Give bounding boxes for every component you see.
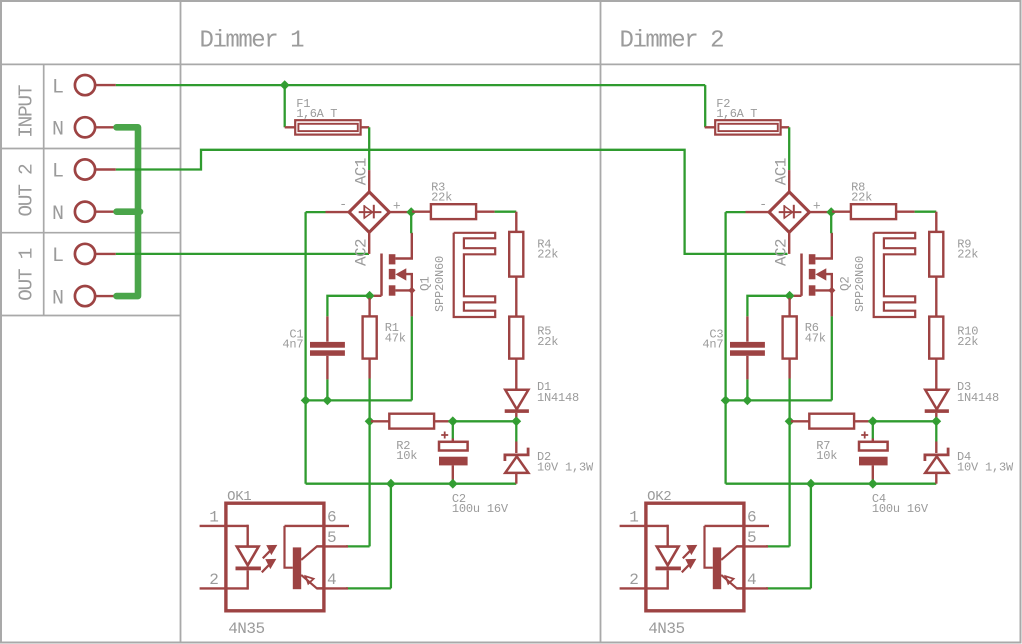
- svg-text:AC1: AC1: [772, 158, 790, 185]
- wire C3 to rail: [746, 379, 748, 400]
- pin C2 top: [452, 439, 454, 442]
- wire bridge minus to left vertical: [726, 211, 746, 213]
- pin D3 bottom: [935, 413, 937, 419]
- wire opto emitter vertical: [810, 484, 812, 589]
- wire node down to D2: [515, 421, 517, 441]
- pin bridge minus: [326, 211, 349, 213]
- bridge rectifier diamond: [769, 192, 809, 232]
- wire opto emitter horizontal: [346, 587, 391, 589]
- resistor R4 body: [509, 232, 523, 277]
- bridge inner cathode bar: [793, 205, 795, 219]
- pin R2 right: [434, 420, 448, 422]
- junction gate node: [785, 291, 795, 301]
- transistor Q2 gate bar: [800, 254, 803, 296]
- wire R3 to R4: [495, 211, 517, 213]
- resistor R2 body: [389, 414, 434, 429]
- svg-text:SPP20N60: SPP20N60: [853, 256, 867, 312]
- transistor Q1 source block: [389, 285, 396, 295]
- wire from INPUT-L down to fuse F1: [284, 85, 286, 127]
- wire down to R9: [935, 212, 937, 232]
- pin D4 top: [935, 442, 937, 454]
- capacitor C3 plate 2: [730, 350, 765, 356]
- capacitor C2 bottom plate: [439, 457, 468, 466]
- header divider line: [1, 63, 1021, 65]
- lower ground rail: [306, 483, 517, 485]
- svg-text:6: 6: [327, 509, 337, 527]
- bridge inner diode line: [359, 211, 382, 213]
- pin R7 right: [854, 420, 868, 422]
- fuse F1 inner: [298, 124, 357, 131]
- terminal X4 (OUT2 N): [75, 202, 95, 222]
- junction D3 node: [931, 416, 941, 426]
- transistor Q1 body wire: [405, 274, 412, 290]
- terminal table bottom line: [1, 315, 180, 317]
- capacitor C4 bottom plate: [859, 457, 888, 466]
- pin D1 bottom: [515, 413, 517, 419]
- junction gate-column to R7: [785, 416, 795, 426]
- junction rail C1: [323, 396, 333, 406]
- transistor Q1 body block: [389, 269, 396, 279]
- wire source of Q2 to rail: [831, 316, 833, 400]
- junction opto emitter on rail: [806, 479, 816, 489]
- terminal table row line 1: [1, 148, 180, 150]
- pin fuse F1 left: [285, 126, 296, 128]
- svg-text:OK1: OK1: [227, 489, 251, 505]
- pin D4 bottom: [935, 473, 937, 484]
- capacitor C1 plate 1: [310, 342, 345, 348]
- pin source of Q1 down: [411, 290, 413, 316]
- pin C2 bottom: [452, 465, 454, 483]
- light arrow 1 in OK2: [683, 546, 696, 558]
- wire drain of Q1 to plus node: [410, 212, 412, 233]
- pin R2 left: [371, 420, 389, 422]
- svg-text:Q1: Q1: [418, 276, 432, 291]
- svg-text:6: 6: [747, 509, 757, 527]
- wire from INPUT-L down to fuse F2: [704, 85, 706, 127]
- svg-text:22k: 22k: [537, 248, 558, 262]
- pin gate of Q2: [794, 295, 802, 297]
- svg-text:22k: 22k: [537, 335, 558, 349]
- wire fuse F2 to bridge AC1: [788, 127, 790, 170]
- phototransistor base lead in OK2: [705, 526, 713, 568]
- pin bridge plus: [389, 211, 410, 213]
- pin bridge minus: [746, 211, 769, 213]
- bridge inner triangle: [364, 206, 372, 218]
- wire node to D1 node: [453, 420, 517, 422]
- pin C1 top: [326, 316, 328, 341]
- resistor R7 body: [809, 414, 854, 429]
- wire net INPUT-L main: [116, 84, 705, 86]
- resistor R6 body: [783, 316, 797, 358]
- pin of terminal INPUT N: [95, 126, 115, 128]
- wire left vertical (minus rail): [304, 212, 306, 484]
- wire R4 to R5: [515, 277, 517, 317]
- svg-text:1N4148: 1N4148: [537, 391, 579, 405]
- wire gate node down to R6: [788, 298, 790, 316]
- svg-text:L: L: [52, 245, 64, 268]
- phototransistor emitter in OK2: [721, 575, 744, 589]
- transistor Q2 body wire: [825, 274, 832, 290]
- phototransistor emitter arrowhead in OK2: [726, 576, 734, 584]
- wire opto collector horizontal: [346, 545, 370, 547]
- svg-text:-: -: [339, 197, 347, 212]
- svg-text:Q2: Q2: [838, 276, 852, 291]
- pin fuse F1 right: [361, 126, 370, 128]
- pin of terminal OUT1 L: [95, 253, 115, 255]
- phototransistor base lead in OK1: [285, 526, 293, 568]
- junction bridge plus node: [826, 207, 836, 217]
- diode D3 cathode bar: [925, 409, 949, 413]
- wire R8 to R9: [915, 211, 937, 213]
- resistor R10 body: [929, 317, 943, 359]
- svg-text:1,6A T: 1,6A T: [716, 107, 757, 121]
- bridge inner anode bar: [363, 205, 365, 218]
- wire opto emitter horizontal: [766, 587, 811, 589]
- LED anode lead in OK2: [667, 525, 669, 547]
- wire opto emitter vertical: [390, 484, 392, 589]
- svg-text:5: 5: [327, 529, 337, 547]
- pin C3 top: [746, 316, 748, 341]
- resistor R9 body: [929, 232, 943, 277]
- svg-text:OUT 2: OUT 2: [16, 164, 38, 217]
- wire R9 to R10: [935, 277, 937, 317]
- bridge inner cathode bar: [373, 205, 375, 219]
- pin C1 bottom: [326, 356, 328, 380]
- wire R7 to C4 node: [869, 420, 873, 422]
- diode D1 cathode bar: [505, 409, 529, 413]
- transistor Q1 drain block: [389, 254, 396, 264]
- wire gate to C3: [747, 296, 789, 317]
- junction source of Q2: [828, 287, 835, 294]
- terminal X1 (INPUT L): [75, 75, 95, 95]
- terminal X5 (OUT1 L): [75, 244, 95, 264]
- heatsink tab of Q1: [454, 233, 496, 317]
- transistor Q2 source wire: [815, 289, 831, 291]
- wire opto collector horizontal: [766, 545, 790, 547]
- terminal table inner divider: [43, 64, 45, 315]
- pin of terminal OUT2 N: [95, 210, 115, 212]
- resistor R5 body: [509, 317, 523, 359]
- junction D1 node: [511, 416, 521, 426]
- LED anode lead in OK1: [246, 525, 248, 547]
- svg-text:10V 1,3W: 10V 1,3W: [957, 461, 1014, 475]
- capacitor C2 plus sign: [441, 432, 448, 439]
- bridge inner triangle: [784, 206, 792, 218]
- svg-text:1,6A T: 1,6A T: [296, 107, 337, 121]
- pin C4 top: [872, 439, 874, 442]
- svg-text:22k: 22k: [431, 191, 452, 205]
- svg-text:1N4148: 1N4148: [957, 391, 999, 405]
- junction C2 top node: [448, 416, 458, 426]
- transistor Q2 source block: [809, 285, 816, 295]
- wire R10 to D3: [935, 359, 937, 390]
- transistor Q1 body arrow: [395, 268, 406, 280]
- pin D2 top: [515, 442, 517, 454]
- transistor Q2 body block: [809, 269, 816, 279]
- svg-text:AC1: AC1: [352, 158, 370, 185]
- wire OUT2-L horizontal: [116, 150, 788, 254]
- wire gate node down to R1: [368, 298, 370, 316]
- capacitor C2 top plate: [439, 442, 468, 451]
- wire bridge minus to left vertical: [306, 211, 326, 213]
- pin R8 right: [896, 210, 915, 212]
- heatsink tab of Q2: [874, 233, 916, 317]
- phototransistor base bar in OK2: [713, 547, 721, 589]
- wire R1 bottom to opto collector: [368, 379, 370, 547]
- svg-text:2: 2: [629, 571, 639, 589]
- column divider x=600: [600, 1, 602, 643]
- pin fuse F2 right: [781, 126, 790, 128]
- junction C4 top node: [868, 416, 878, 426]
- svg-text:L: L: [52, 76, 64, 99]
- pin D2 bottom: [515, 473, 517, 484]
- fuse F2 body: [715, 120, 780, 134]
- phototransistor base bar in OK1: [293, 547, 301, 589]
- pin 6 of OK1: [285, 525, 350, 527]
- bridge inner anode bar: [783, 205, 785, 218]
- phototransistor emitter arrowhead in OK1: [306, 576, 314, 584]
- wire left vertical (minus rail): [724, 212, 726, 484]
- capacitor C4 plus sign: [861, 432, 868, 439]
- svg-text:47k: 47k: [805, 331, 826, 345]
- bridge inner diode line: [779, 211, 802, 213]
- pin of terminal OUT2 L: [95, 168, 115, 170]
- pin C3 bottom: [746, 356, 748, 380]
- junction rail left: [301, 396, 311, 406]
- wire node down to C2: [452, 421, 454, 438]
- transistor Q2 drain wire: [815, 233, 831, 259]
- pin 1 of OK1: [200, 525, 248, 527]
- transistor Q2 drain block: [809, 254, 816, 264]
- pin of terminal OUT1 N: [95, 295, 115, 297]
- svg-text:22k: 22k: [957, 248, 978, 262]
- pin 6 of OK2: [705, 525, 770, 527]
- svg-text:1: 1: [209, 509, 219, 527]
- svg-text:5: 5: [747, 529, 757, 547]
- capacitor C4 top plate: [859, 442, 888, 451]
- junction source of Q1: [408, 287, 415, 294]
- pin source of Q2 down: [831, 290, 833, 316]
- transistor Q1 drain wire: [395, 233, 411, 259]
- svg-text:4n7: 4n7: [282, 337, 303, 351]
- svg-text:AC2: AC2: [772, 239, 790, 266]
- svg-text:100u 16V: 100u 16V: [452, 502, 509, 516]
- light arrow 2 in OK1: [262, 560, 275, 572]
- pin 4 of OK2: [737, 587, 768, 589]
- LED cathode bar in OK1: [236, 567, 261, 571]
- pin 4 of OK1: [317, 587, 348, 589]
- pin 5 of OK2: [737, 545, 768, 547]
- LED cathode lead in OK2: [667, 570, 669, 589]
- wire R5 to D1: [515, 359, 517, 390]
- upper source rail: [306, 399, 412, 401]
- phototransistor emitter in OK1: [301, 575, 324, 589]
- column divider x=180: [180, 1, 182, 643]
- wire C1 to rail: [326, 379, 328, 400]
- pin AC2 of bridge: [368, 232, 370, 254]
- svg-text:4: 4: [747, 571, 757, 589]
- terminal X2 (INPUT N): [75, 117, 95, 137]
- wire fuse F1 to bridge AC1: [368, 127, 370, 170]
- wire node down to D4: [935, 421, 937, 441]
- terminal X6 (OUT1 N): [75, 286, 95, 306]
- pin R1 bottom: [368, 359, 370, 379]
- LED triangle in OK2: [657, 547, 679, 566]
- terminal table row line 2: [1, 232, 180, 234]
- fuse F1 body: [295, 120, 360, 134]
- svg-text:Dimmer 1: Dimmer 1: [200, 28, 305, 55]
- svg-text:4N35: 4N35: [648, 620, 684, 638]
- wire down to R4: [515, 212, 517, 232]
- zener D2 triangle: [505, 456, 528, 473]
- svg-text:2: 2: [209, 571, 219, 589]
- bridge rectifier diamond: [349, 192, 389, 232]
- svg-text:10V 1,3W: 10V 1,3W: [537, 461, 594, 475]
- wire R6 bottom to opto collector: [788, 379, 790, 547]
- pin of terminal INPUT L: [95, 84, 115, 86]
- svg-text:4n7: 4n7: [702, 337, 723, 351]
- lower ground rail: [726, 483, 937, 485]
- pin AC1 of bridge: [368, 170, 370, 192]
- resistor R8 body: [851, 204, 896, 219]
- svg-text:22k: 22k: [851, 191, 872, 205]
- thick N bus wire: [117, 127, 139, 296]
- transistor Q1 gate bar: [380, 254, 383, 296]
- svg-text:L: L: [52, 161, 64, 184]
- pin R3 left: [412, 210, 431, 212]
- wire node to D3 node: [873, 420, 937, 422]
- resistor R1 body: [363, 316, 377, 358]
- LED triangle in OK1: [237, 547, 259, 566]
- svg-text:4: 4: [327, 571, 337, 589]
- phototransistor collector in OK2: [721, 546, 744, 560]
- svg-text:100u 16V: 100u 16V: [872, 502, 929, 516]
- pin 1 of OK2: [620, 525, 668, 527]
- svg-text:47k: 47k: [385, 331, 406, 345]
- pin 5 of OK1: [317, 545, 348, 547]
- LED cathode lead in OK1: [246, 570, 248, 589]
- junction opto emitter on rail: [386, 479, 396, 489]
- svg-text:22k: 22k: [957, 335, 978, 349]
- svg-text:OK2: OK2: [647, 489, 671, 505]
- junction C4 bottom on rail: [868, 479, 878, 489]
- zener D4 cathode bar: [925, 448, 948, 461]
- pin 2 of OK1: [200, 587, 248, 589]
- pin R3 right: [476, 210, 495, 212]
- pin bridge plus: [809, 211, 830, 213]
- zener D4 triangle: [925, 456, 948, 473]
- svg-text:1: 1: [629, 509, 639, 527]
- pin R7 left: [791, 420, 809, 422]
- pin AC1 of bridge: [788, 170, 790, 192]
- junction bridge plus node: [406, 207, 416, 217]
- optocoupler OK2 box: [646, 503, 744, 611]
- pin 2 of OK2: [620, 587, 668, 589]
- light arrow 2 in OK2: [682, 560, 695, 572]
- svg-text:INPUT: INPUT: [16, 85, 38, 138]
- svg-text:OUT 1: OUT 1: [16, 248, 38, 301]
- junction C2 bottom on rail: [448, 479, 458, 489]
- junction gate-column to R2: [365, 416, 375, 426]
- wire OUT1-L: [116, 253, 369, 255]
- LED cathode bar in OK2: [656, 567, 681, 571]
- optocoupler OK1 box: [226, 503, 324, 611]
- transistor Q1 source wire: [395, 289, 411, 291]
- diode D1 triangle: [505, 390, 528, 410]
- upper source rail: [726, 399, 832, 401]
- junction rail C3: [743, 396, 753, 406]
- svg-text:SPP20N60: SPP20N60: [433, 256, 447, 312]
- svg-text:10k: 10k: [816, 449, 837, 463]
- transistor Q2 body arrow: [815, 268, 826, 280]
- wire gate to C1: [327, 296, 369, 317]
- svg-text:-: -: [759, 197, 767, 212]
- light arrow 1 in OK1: [263, 546, 276, 558]
- fuse F2 inner: [718, 124, 777, 131]
- wire drain of Q2 to plus node: [830, 212, 832, 233]
- thick N bus stub OUT2 N: [117, 208, 141, 215]
- pin AC2 of bridge: [788, 232, 790, 254]
- resistor R3 body: [431, 204, 476, 219]
- pin R8 left: [832, 210, 851, 212]
- svg-text:Dimmer 2: Dimmer 2: [620, 28, 724, 55]
- wire node down to C4: [872, 421, 874, 438]
- svg-text:10k: 10k: [396, 449, 417, 463]
- junction rail left: [721, 396, 731, 406]
- capacitor C1 plate 2: [310, 350, 345, 356]
- svg-text:4N35: 4N35: [228, 620, 264, 638]
- svg-text:N: N: [52, 203, 64, 226]
- pin gate of Q1: [374, 295, 382, 297]
- wire source of Q1 to rail: [411, 316, 413, 400]
- diode D3 triangle: [925, 390, 948, 410]
- capacitor C3 plate 1: [730, 342, 765, 348]
- pin C4 bottom: [872, 465, 874, 483]
- svg-text:N: N: [52, 287, 64, 310]
- terminal X3 (OUT2 L): [75, 159, 95, 179]
- junction on INPUT-L at F1 branch: [280, 80, 290, 90]
- pin fuse F2 left: [705, 126, 716, 128]
- pin R6 bottom: [788, 359, 790, 379]
- junction gate node: [365, 291, 375, 301]
- svg-text:N: N: [52, 119, 64, 142]
- zener D2 cathode bar: [505, 448, 528, 461]
- phototransistor collector in OK1: [301, 546, 324, 560]
- wire R2 to C2 node: [449, 420, 453, 422]
- svg-text:AC2: AC2: [352, 239, 370, 266]
